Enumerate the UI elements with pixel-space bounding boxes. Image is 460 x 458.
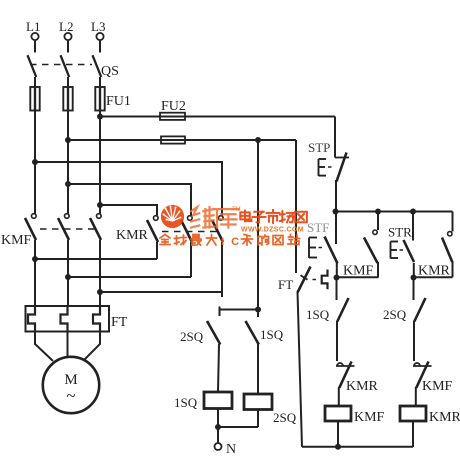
wire KMR coil to rail (412, 421, 414, 447)
svg-text:2SQ: 2SQ (383, 307, 407, 322)
node rail/STR (410, 209, 416, 215)
svg-text:N: N (226, 442, 236, 453)
coil KMF (325, 406, 351, 421)
node SQ bar / feeder (255, 307, 261, 313)
wire 2SQ coil down (257, 410, 259, 428)
pushbutton STR (391, 212, 415, 278)
terminal N (215, 443, 222, 450)
svg-text:KMF: KMF (354, 410, 385, 425)
wire STF/KMF-aux join (337, 276, 379, 278)
wire L3 to QS (99, 40, 101, 52)
contactor KMR interlock contact (NC) (336, 362, 355, 407)
node V junction (65, 274, 71, 280)
wire control hot vertical to STP (334, 117, 336, 158)
switch QS pole 2 (61, 55, 70, 87)
limit switch 1SQ (337, 278, 349, 362)
fuse FU2 lower (161, 136, 185, 143)
wire KMR3 down (221, 242, 223, 297)
node N junction (215, 424, 221, 430)
motor M (43, 357, 99, 413)
node coil KMF / rail (335, 444, 341, 450)
contactor KMF main contact 1 (25, 214, 36, 240)
wire FT-return vertical lower (298, 292, 303, 447)
node W junction (97, 289, 103, 295)
terminal L1 (31, 33, 38, 40)
svg-text:KMR: KMR (418, 264, 451, 279)
svg-text:L2: L2 (59, 19, 73, 34)
node L2/FU2b junction (65, 137, 71, 143)
wire control rail (335, 211, 453, 213)
switch QS pole 3 (93, 55, 102, 87)
node U junction (32, 256, 38, 262)
fuse FU1 pole 2 (63, 87, 72, 111)
svg-text:FT: FT (278, 277, 293, 292)
wire L3 to KMR pole1 (97, 202, 103, 208)
wire L1 to KMR pole3 (32, 159, 38, 165)
wire KMF1 down to FT (34, 240, 36, 306)
wire FT3 to motor (84, 332, 100, 361)
limit switch 2SQ (414, 278, 426, 362)
wire FT2 to motor (67, 332, 69, 358)
contactor KMF interlock contact (NC) (413, 362, 432, 407)
wire U cross (KMF1-KMR1) (35, 258, 157, 260)
wire 2SQ to node N (218, 426, 258, 428)
pushbutton STF (309, 212, 338, 278)
terminal L2 (64, 33, 71, 40)
svg-text:KMF: KMF (422, 379, 453, 394)
KMF linkage dashed (40, 228, 96, 230)
wire SQ bar (220, 307, 259, 317)
FT heater element 3 (93, 306, 100, 332)
svg-text:L3: L3 (91, 19, 105, 34)
wire KMF coil to rail (337, 421, 339, 447)
fuse FU1 pole 3 (95, 87, 104, 111)
svg-text:FU2: FU2 (161, 99, 186, 114)
node L3/FU2a junction (97, 114, 103, 120)
thermal relay FT box (26, 306, 110, 332)
coil 1SQ (204, 392, 232, 409)
wire control bottom rail (302, 446, 413, 448)
node STR/KMR-aux/2SQ (411, 275, 417, 281)
svg-text:KMR: KMR (429, 410, 460, 425)
wire FT1 to motor (35, 332, 53, 362)
svg-text:~: ~ (66, 386, 75, 405)
wire L2 feeder (67, 111, 69, 214)
KMR linkage dashed (162, 231, 218, 233)
coil KMR (400, 406, 426, 421)
wire V cross (KMF2-KMR2) (68, 276, 191, 278)
wire L1 to QS (34, 40, 36, 52)
QS linkage dashed (30, 64, 92, 66)
svg-text:WWW.DZSC.COM: WWW.DZSC.COM (241, 227, 304, 234)
FT heater element 2 (61, 306, 68, 332)
watermark text 维库 (191, 207, 241, 228)
contactor KMR main contact 2 (181, 216, 192, 242)
watermark text 电子市场网 (240, 210, 307, 223)
node FU2b / SQ-branch junction (255, 137, 261, 143)
fuse FU1 pole 1 (30, 87, 39, 111)
wire L2 to QS (67, 40, 69, 52)
contactor KMR main contact 3 (212, 216, 223, 242)
svg-text:FT: FT (111, 315, 128, 330)
svg-text:KMF: KMF (343, 264, 374, 279)
wire STR/KMR-aux join (414, 276, 453, 278)
wire L1 feeder (34, 111, 36, 214)
svg-text:STP: STP (308, 140, 330, 155)
svg-text:1SQ: 1SQ (260, 327, 284, 342)
wire SQ branch vertical (257, 140, 259, 310)
svg-text:STR: STR (388, 225, 412, 240)
wire KMF3 down to FT (99, 240, 101, 306)
wire L2 to KMR pole2 (65, 181, 71, 187)
svg-text:L1: L1 (26, 19, 40, 34)
wire FU2a horizontal (100, 116, 335, 118)
thermal contact FT (NC) (298, 267, 328, 293)
wire L3 feeder (99, 111, 101, 214)
svg-text:FU1: FU1 (106, 94, 131, 109)
watermark logo (161, 205, 184, 228)
contactor KMF aux contact (364, 212, 378, 278)
node rail/KMF-aux (375, 209, 381, 215)
svg-text:1SQ: 1SQ (306, 307, 330, 322)
wire FU2b horizontal (68, 139, 296, 141)
svg-text:STF: STF (307, 220, 329, 235)
coil 2SQ (244, 394, 272, 410)
svg-text:QS: QS (101, 64, 119, 79)
watermark slogan (160, 235, 300, 249)
svg-text:I C: I C (221, 236, 241, 248)
wire 1SQ coil down (217, 409, 219, 444)
contactor KMF main contact 3 (90, 214, 101, 240)
fuse FU2 upper (160, 113, 185, 120)
pushbutton STP (319, 153, 350, 212)
wire FT-return vertical upper (295, 140, 297, 273)
wire W cross (KMF3-KMR3) (100, 291, 222, 293)
svg-text:KMF: KMF (1, 233, 32, 248)
FT heater element 1 (28, 306, 35, 332)
terminal L3 (96, 33, 103, 40)
node STF/KMF-aux/1SQ (334, 275, 340, 281)
wire KMR1 down (156, 242, 158, 259)
wire KMR2 down (190, 242, 192, 277)
limit switch 2SQ middle (207, 321, 220, 392)
limit switch 1SQ middle (246, 310, 259, 395)
svg-text:KMR: KMR (346, 379, 379, 394)
contactor KMF main contact 2 (58, 214, 69, 240)
svg-text:2SQ: 2SQ (273, 410, 297, 425)
svg-text:2SQ: 2SQ (180, 329, 204, 344)
contactor KMR main contact 1 (147, 216, 158, 242)
svg-text:1SQ: 1SQ (174, 395, 198, 410)
node rail/STF (333, 209, 339, 215)
contactor KMR aux contact (442, 212, 453, 278)
switch QS pole 1 (28, 55, 37, 87)
svg-text:KMR: KMR (116, 228, 149, 243)
wire KMF2 down to FT (67, 240, 69, 306)
